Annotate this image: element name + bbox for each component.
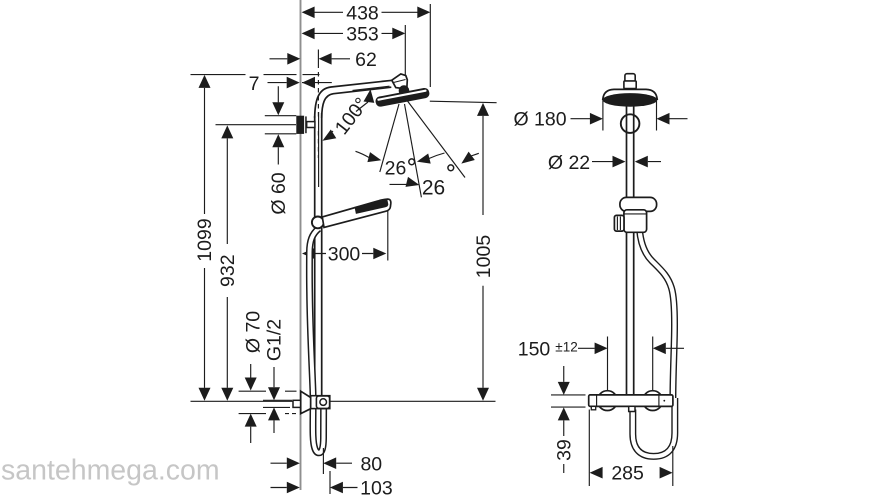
svg-text:Ø 22: Ø 22 bbox=[548, 152, 590, 174]
centerline of wall outlet bbox=[191, 400, 496, 402]
top extension line (mount top) bbox=[191, 74, 320, 76]
svg-text:438: 438 bbox=[346, 2, 379, 24]
dimension 1005 bbox=[482, 116, 484, 388]
extension lines 285 bbox=[589, 410, 673, 487]
extension line 353 right bbox=[404, 25, 406, 87]
dimension 80 bbox=[271, 462, 353, 464]
top connector bbox=[625, 74, 635, 82]
extension line bracket pin axis bbox=[216, 124, 297, 126]
hose nub bbox=[629, 406, 635, 411]
overhead shower head (side) bbox=[375, 87, 430, 107]
svg-text:300: 300 bbox=[328, 244, 361, 266]
extension lines 39 bbox=[551, 395, 586, 407]
svg-text:150: 150 bbox=[518, 338, 551, 360]
svg-text:Ø 180: Ø 180 bbox=[513, 108, 566, 130]
shower arm bbox=[315, 80, 393, 118]
dimension dia 70 bbox=[250, 364, 252, 443]
hose upper (front) bbox=[640, 229, 675, 398]
svg-text:26: 26 bbox=[385, 158, 407, 180]
dimension 438 bbox=[310, 11, 418, 13]
valve escutcheons bbox=[598, 391, 618, 411]
dimension 103 bbox=[271, 487, 358, 489]
dimension 353 bbox=[310, 32, 393, 34]
wall bracket flange bbox=[296, 116, 304, 134]
wall line bbox=[300, 0, 302, 490]
svg-text:1099: 1099 bbox=[194, 218, 216, 261]
dimension 7 bbox=[268, 82, 332, 84]
svg-text:62: 62 bbox=[355, 49, 377, 71]
dimension G1/2 bbox=[273, 367, 275, 433]
dimension 1099 bbox=[204, 88, 206, 388]
extension lines 150 bbox=[608, 337, 653, 391]
extension lines dia 180 bbox=[603, 99, 657, 131]
extension line 438 right bbox=[429, 4, 431, 87]
extension line 300 right bbox=[387, 200, 389, 261]
dimension 39 bbox=[563, 366, 565, 473]
svg-text:932: 932 bbox=[217, 254, 239, 287]
holder knob bbox=[614, 215, 624, 231]
bracket pin bbox=[307, 122, 315, 128]
dimension 932 bbox=[226, 138, 228, 388]
extension line 103 right bbox=[329, 471, 331, 494]
extension line 80 right bbox=[322, 448, 324, 474]
extension lines G1/2 bbox=[263, 400, 292, 407]
spray fan line right bbox=[408, 101, 466, 178]
svg-text:G1/2: G1/2 bbox=[264, 319, 286, 361]
dimension 300 bbox=[315, 253, 373, 255]
slider holder bbox=[312, 217, 324, 229]
overhead shower dome (front) bbox=[603, 89, 657, 99]
riser pipe (front) bbox=[626, 85, 628, 395]
extension line 1005 top (head plane) bbox=[430, 101, 497, 103]
thermostat bar bbox=[589, 395, 673, 407]
wall outlet body bbox=[311, 396, 330, 409]
svg-text:7: 7 bbox=[249, 73, 260, 95]
svg-text:1005: 1005 bbox=[473, 235, 495, 279]
svg-text:26: 26 bbox=[422, 177, 445, 200]
svg-text:Ø 70: Ø 70 bbox=[242, 311, 264, 353]
valve left nub bbox=[591, 406, 595, 409]
svg-text:80: 80 bbox=[360, 453, 382, 475]
dimension 62 bbox=[270, 58, 351, 60]
dashed extension line column axis bbox=[317, 50, 319, 69]
hand shower head (front) bbox=[620, 197, 657, 211]
hand shower hose (left view) bbox=[309, 229, 323, 453]
hose loop (front) bbox=[633, 398, 675, 456]
overhead shower face (front) bbox=[603, 93, 658, 107]
dimension 285 bbox=[590, 467, 603, 479]
svg-text:285: 285 bbox=[611, 463, 644, 485]
pipe joint ring bbox=[621, 114, 640, 133]
angle 26 deg first bbox=[356, 151, 370, 157]
svg-text:353: 353 bbox=[346, 24, 379, 46]
angle 26 deg second bbox=[390, 183, 407, 185]
svg-text:santehmega.com: santehmega.com bbox=[1, 455, 220, 487]
extension lines bracket flange (dim 60) bbox=[265, 116, 297, 134]
svg-text:±12: ±12 bbox=[555, 340, 577, 355]
svg-text:103: 103 bbox=[360, 478, 393, 500]
svg-text:Ø 60: Ø 60 bbox=[268, 172, 290, 214]
spray fan line left bbox=[380, 104, 399, 172]
extension lines dia 70 bbox=[239, 390, 297, 392]
svg-text:39: 39 bbox=[554, 439, 576, 461]
wall outlet escutcheon cone bbox=[301, 391, 311, 413]
hand shower holder (front) bbox=[624, 210, 647, 233]
wall outlet pin bbox=[293, 400, 301, 407]
dimension dia 60 bbox=[277, 86, 279, 164]
head mount bbox=[392, 74, 408, 89]
column pipe bbox=[314, 116, 316, 391]
angle 100 deg arc and arrows bbox=[364, 89, 375, 103]
ball joint bbox=[399, 85, 410, 96]
spray fan line middle bbox=[405, 104, 422, 197]
hand shower (side) bbox=[322, 199, 391, 227]
